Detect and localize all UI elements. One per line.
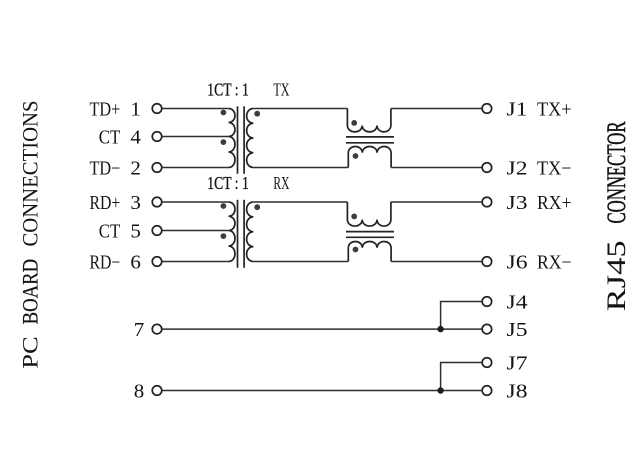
junction pin 8 net (437, 387, 443, 393)
svg-text:CT: CT (99, 221, 121, 242)
transformer T1 primary winding (pins 1-4-2) (229, 109, 235, 168)
svg-text:TX+: TX+ (537, 99, 572, 120)
svg-text:1CT : 1: 1CT : 1 (207, 80, 249, 100)
svg-text:J2: J2 (507, 158, 528, 179)
wire choke L1 to J2 (391, 167, 482, 169)
svg-text:J7: J7 (507, 353, 528, 374)
choke L1 bottom winding (348, 146, 391, 167)
svg-text:6: 6 (130, 252, 141, 273)
polarity dot L2 bottom winding (353, 247, 359, 253)
transformer T1 secondary winding (247, 109, 254, 168)
wire pin 2 lead (162, 167, 229, 169)
svg-text:BOARD: BOARD (19, 259, 43, 325)
wire pin 3 lead (162, 201, 229, 203)
wire junction to J7 (441, 363, 483, 391)
pin J1 terminal circle (482, 104, 492, 114)
wire pin 1 lead (162, 108, 229, 110)
pin J6 terminal circle (482, 257, 492, 267)
svg-text:8: 8 (134, 381, 145, 402)
svg-text:RD−: RD− (90, 252, 121, 273)
svg-text:J5: J5 (507, 320, 528, 341)
wire pin 6 lead (162, 261, 229, 263)
svg-text:RJ45: RJ45 (602, 240, 631, 311)
pin 5 terminal circle (152, 226, 162, 236)
pin 7 terminal circle (152, 324, 162, 334)
pin J8 terminal circle (482, 386, 492, 396)
transformer T1 core (237, 106, 239, 174)
svg-text:CONNECTIONS: CONNECTIONS (19, 101, 43, 247)
polarity dot T1 primary pin 1 (221, 110, 227, 116)
polarity dot T1 secondary (254, 111, 260, 117)
polarity dot T2 primary center tap (221, 233, 227, 239)
wire pin 8 to J8 (162, 390, 482, 392)
svg-text:TD+: TD+ (90, 99, 121, 120)
choke L1 top winding (347, 109, 390, 132)
svg-text:5: 5 (130, 221, 141, 242)
pin 1 terminal circle (152, 104, 162, 114)
choke L2 core (346, 231, 394, 233)
junction pin 7 net (437, 326, 443, 332)
pin J2 terminal circle (482, 163, 492, 173)
pin J3 terminal circle (482, 197, 492, 207)
polarity dot L1 bottom winding (353, 153, 359, 159)
pin 2 terminal circle (152, 163, 162, 173)
wire T1 secondary top to choke L1 (253, 108, 347, 110)
svg-text:CONNECTOR: CONNECTOR (602, 121, 631, 223)
svg-text:J4: J4 (507, 292, 528, 313)
svg-text:RD+: RD+ (90, 193, 121, 214)
svg-text:3: 3 (130, 193, 141, 214)
choke L2 top winding (347, 202, 390, 226)
transformer T2 secondary winding (247, 202, 254, 262)
wire T1 secondary bottom to choke L1 (253, 167, 348, 169)
svg-text:2: 2 (130, 158, 141, 179)
wire choke L2 to J6 (391, 261, 482, 263)
wire T2 secondary top to choke L2 (253, 201, 347, 203)
svg-text:J8: J8 (507, 381, 528, 402)
wire junction to J4 (441, 302, 483, 330)
svg-text:RX: RX (273, 173, 289, 193)
svg-text:1CT : 1: 1CT : 1 (207, 173, 249, 193)
polarity dot T2 secondary (254, 204, 260, 210)
pin 4 terminal circle (152, 132, 162, 142)
pin 8 terminal circle (152, 386, 162, 396)
polarity dot L2 top winding (351, 214, 357, 220)
transformer T2 core (237, 200, 239, 268)
svg-text:J1: J1 (507, 99, 528, 120)
pin 3 terminal circle (152, 197, 162, 207)
choke L1 core (346, 136, 394, 138)
svg-text:7: 7 (134, 320, 145, 341)
svg-text:4: 4 (130, 127, 141, 148)
svg-text:1: 1 (130, 99, 141, 120)
pin J5 terminal circle (482, 324, 492, 334)
polarity dot T1 primary center tap (221, 139, 227, 145)
svg-text:J6: J6 (507, 252, 528, 273)
svg-text:TD−: TD− (90, 158, 121, 179)
wire choke L2 to J3 (391, 201, 482, 203)
svg-text:J3: J3 (507, 193, 528, 214)
pin 6 terminal circle (152, 257, 162, 267)
polarity dot L1 top winding (351, 120, 357, 126)
svg-text:RX−: RX− (537, 252, 572, 273)
wire center tap pin 5 (162, 230, 229, 232)
choke L2 bottom winding (348, 241, 391, 261)
wire center tap pin 4 (162, 136, 229, 138)
wire pin 7 to J5 (162, 328, 482, 330)
wire choke L1 to J1 (391, 108, 482, 110)
polarity dot T2 primary pin 3 (221, 203, 227, 209)
svg-text:TX−: TX− (537, 158, 572, 179)
pin J7 terminal circle (482, 358, 492, 368)
svg-text:RX+: RX+ (537, 193, 572, 214)
svg-text:CT: CT (99, 127, 121, 148)
wire T2 secondary bottom to choke L2 (253, 261, 348, 263)
svg-text:PC: PC (19, 336, 43, 368)
pin J4 terminal circle (482, 297, 492, 307)
transformer T2 primary winding (pins 3-5-6) (229, 202, 235, 262)
svg-text:TX: TX (273, 80, 289, 100)
